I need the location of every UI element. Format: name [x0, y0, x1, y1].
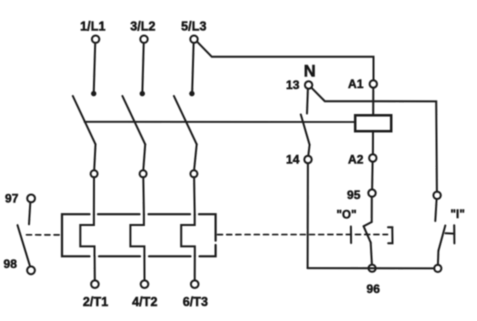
- overload heater element pole 2: [130, 215, 144, 257]
- wire blade to bottom: [437, 251, 440, 265]
- svg-text:A1: A1: [348, 77, 364, 91]
- svg-text:98: 98: [4, 257, 18, 271]
- wire pole 3 into overload: [193, 177, 196, 214]
- svg-text:14: 14: [286, 152, 300, 166]
- contactor coil K1: [355, 115, 391, 131]
- aux contact 13-14 blade: [301, 115, 310, 145]
- contactor K1 pole 3 blade: [174, 96, 197, 144]
- contactor K1 pole 2 blade: [122, 96, 145, 144]
- contactor K1 pole 1 blade: [73, 96, 96, 144]
- coil terminal A2: [369, 154, 376, 161]
- svg-text:2/T1: 2/T1: [83, 295, 108, 309]
- svg-text:97: 97: [5, 191, 19, 205]
- wire A1 to coil: [372, 88, 374, 116]
- svg-text:"I": "I": [451, 209, 465, 221]
- svg-text:95: 95: [347, 188, 361, 202]
- wire to 4/T2: [143, 256, 145, 280]
- overload aux terminal 98: [27, 266, 35, 274]
- wire L2 down: [142, 43, 143, 91]
- wire pole 1 to terminal: [94, 144, 95, 170]
- wire L1 down: [94, 43, 95, 91]
- aux contact terminal 13: [305, 81, 312, 88]
- coil terminal A1: [370, 80, 377, 87]
- fixed contact dot pole 2: [140, 91, 145, 96]
- svg-text:"O": "O": [337, 210, 357, 222]
- svg-text:13: 13: [286, 78, 300, 92]
- node 96: [369, 265, 376, 272]
- svg-text:4/T2: 4/T2: [132, 295, 157, 309]
- dashed trip link 97/98 to box: [27, 234, 62, 236]
- svg-text:A2: A2: [348, 153, 364, 167]
- wire to 6/T3: [194, 256, 196, 280]
- stop actuator bar: [350, 227, 352, 244]
- terminal 3/L2: [140, 36, 147, 43]
- bottom wire: [308, 267, 435, 269]
- start button I NO blade: [438, 226, 445, 251]
- start actuator bar: [453, 225, 455, 243]
- wire I fixed: [435, 199, 436, 221]
- wire 13 to start button: [311, 88, 437, 192]
- start button terminal bottom: [434, 265, 441, 272]
- wire 95 down: [371, 197, 373, 222]
- overload aux terminal 97: [27, 195, 35, 203]
- overload heater element pole 1: [80, 215, 94, 257]
- latch bracket: [388, 227, 393, 243]
- fixed contact dot pole 3: [189, 91, 194, 96]
- start actuator link: [446, 232, 454, 234]
- svg-text:5/L3: 5/L3: [181, 19, 206, 33]
- wire 14 to bottom: [307, 163, 309, 268]
- mechanical linkage line: [85, 121, 356, 123]
- svg-text:6/T3: 6/T3: [183, 295, 208, 309]
- overload heater element pole 3: [181, 215, 195, 257]
- terminal pole 3 mid: [190, 170, 197, 177]
- overload aux contact 97-98 blade: [18, 225, 30, 265]
- fixed contact dot pole 1: [91, 91, 96, 96]
- wire 13 down: [306, 89, 309, 114]
- wire pole 2 to terminal: [143, 144, 145, 170]
- start button terminal top: [433, 192, 440, 199]
- wire pole 2 into overload: [142, 177, 145, 214]
- svg-text:N: N: [304, 63, 316, 81]
- terminal 2/T1: [91, 280, 99, 288]
- svg-text:3/L2: 3/L2: [130, 19, 155, 33]
- terminal pole 2 mid: [140, 170, 147, 177]
- wire blade to node 96: [371, 243, 372, 265]
- terminal 5/L3: [190, 36, 197, 43]
- stop button O NC blade: [364, 226, 371, 242]
- overload contact terminal 95: [368, 189, 375, 196]
- svg-text:1/L1: 1/L1: [80, 19, 105, 33]
- wire pole 3 to terminal: [194, 144, 197, 170]
- wire blade to 14: [308, 145, 309, 156]
- wire to 2/T1: [94, 256, 96, 280]
- wire pole 1 into overload: [93, 177, 95, 214]
- stop contact seat: [364, 222, 372, 226]
- wire L3 down: [192, 43, 193, 91]
- dashed trip link box to stop button: [218, 234, 388, 236]
- terminal 4/T2: [141, 280, 149, 288]
- aux contact terminal 14: [304, 156, 311, 163]
- svg-text:96: 96: [367, 282, 381, 296]
- terminal pole 1 mid: [91, 170, 98, 177]
- overload relay box: [62, 214, 216, 256]
- terminal 1/L1: [92, 36, 99, 43]
- terminal 6/T3: [191, 280, 199, 288]
- wire 97 down: [29, 202, 30, 224]
- wire 5/L3 to control: [197, 42, 373, 81]
- wire A2 to 95: [371, 162, 374, 190]
- wire coil to A2: [372, 131, 374, 154]
